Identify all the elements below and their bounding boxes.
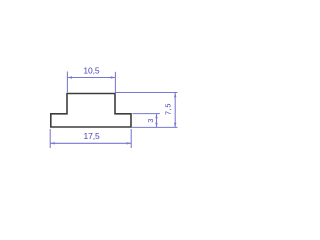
svg-text:17,5: 17,5 xyxy=(84,131,101,141)
svg-text:10,5: 10,5 xyxy=(83,66,100,76)
svg-text:3: 3 xyxy=(146,119,155,123)
svg-text:7,5: 7,5 xyxy=(164,103,173,115)
